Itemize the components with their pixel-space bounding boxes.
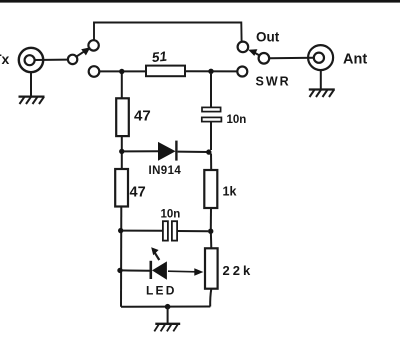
switch S2 lever arrow [248, 49, 260, 56]
node junction left rail top [119, 69, 124, 74]
wire R5 to bottom [210, 289, 211, 307]
svg-text:Out: Out [256, 30, 280, 45]
svg-text:LED: LED [146, 284, 177, 298]
wire led row left [123, 269, 150, 271]
wire top link from S1 throw to Out [94, 23, 242, 42]
svg-text:47: 47 [130, 185, 146, 201]
switch S2 common node [259, 53, 270, 64]
node junction bottom ground [165, 304, 171, 310]
wire diode row right [178, 151, 208, 153]
capacitor C1 10n [202, 107, 222, 121]
capacitor C2 10n [163, 221, 177, 240]
resistor R2 47 [116, 98, 129, 136]
wire diode row left [124, 150, 159, 152]
connector J2 Ant [308, 45, 333, 70]
svg-text:22k: 22k [223, 263, 254, 278]
wire S2 to Ant [269, 57, 313, 59]
resistor R4 1k [204, 170, 217, 208]
node junction right rail top [208, 69, 213, 74]
svg-text:47: 47 [134, 108, 151, 125]
connector J1 Tx [19, 48, 43, 72]
wire right rail to R5 [210, 234, 212, 249]
wire led wiper arrow to R5 [168, 268, 203, 275]
node junction cap row right [208, 229, 213, 234]
node junction diode row right [206, 149, 211, 154]
svg-text:Tx: Tx [0, 51, 10, 67]
LED emission arrow [151, 247, 159, 260]
resistor R3 47 [115, 169, 128, 207]
switch S1 common node [68, 55, 77, 64]
wire right rail to C1 [210, 74, 212, 108]
potentiometer R5 2.2k [205, 248, 218, 288]
diode D1 1N914 [158, 141, 176, 161]
node Out [238, 42, 249, 53]
wire left rail lower [120, 207, 122, 307]
wire left rail mid [121, 136, 123, 169]
wire R4 to cap row [210, 208, 212, 230]
wire Tx to switch common [35, 59, 68, 61]
wire cap row left [123, 230, 163, 232]
ground bottom [154, 307, 180, 332]
LED D2 [151, 261, 167, 280]
svg-text:10n: 10n [161, 208, 181, 220]
wire right rail to R4 [210, 154, 212, 171]
wire R1 to SWR node [185, 70, 237, 72]
node junction diode row left [119, 149, 124, 154]
switch S1 throw (down) node [89, 66, 100, 77]
svg-text:SWR: SWR [256, 75, 291, 89]
resistor R1 51 [146, 66, 185, 77]
svg-text:Ant: Ant [343, 52, 367, 68]
switch S1 throw (up) node [88, 40, 98, 50]
wire cap row right [177, 230, 208, 232]
svg-text:10n: 10n [227, 114, 247, 126]
switch S1 lever arrow [76, 47, 90, 56]
svg-text:1k: 1k [223, 185, 237, 199]
node junction led row left [117, 268, 122, 273]
wire bottom rail [121, 306, 210, 308]
node junction cap row left [118, 228, 123, 233]
svg-text:51: 51 [151, 49, 168, 65]
ground under Ant [309, 70, 335, 97]
wire C1 to junction [210, 122, 212, 150]
wire left rail upper [121, 74, 123, 99]
node SWR [237, 67, 247, 77]
svg-text:IN914: IN914 [149, 165, 182, 177]
ground under Tx [19, 72, 45, 104]
wire S1 to R1 [99, 70, 146, 72]
